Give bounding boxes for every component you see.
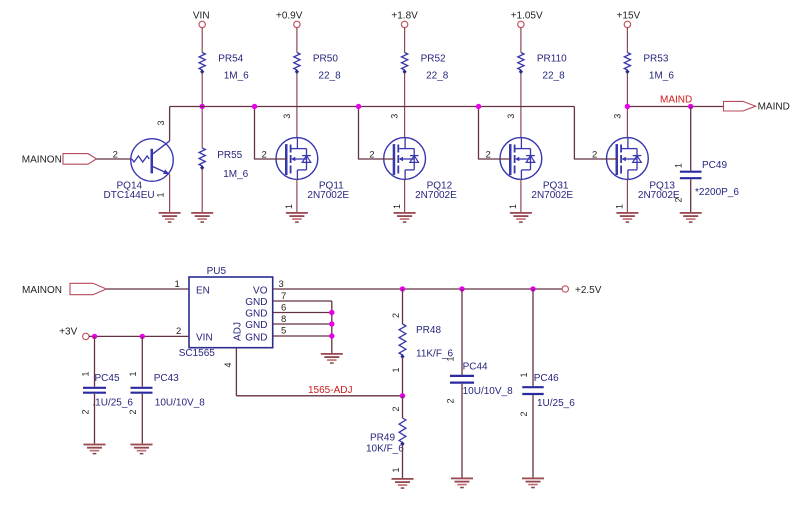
svg-text:PC43: PC43 (154, 373, 179, 384)
pin 1 label PU5 EN (175, 279, 180, 290)
port MAIND (724, 101, 790, 112)
wire gate tap to PQ13 (574, 107, 618, 160)
power terminal +2.5V (562, 285, 602, 296)
svg-text:2: 2 (176, 326, 181, 337)
ground (PC45) (84, 444, 106, 455)
svg-text:2: 2 (391, 406, 401, 411)
pin 4 label PU5 ADJ (223, 362, 233, 367)
svg-text:PC44: PC44 (463, 361, 488, 372)
svg-text:2: 2 (674, 197, 684, 202)
wire PQ14 emitter to ground (169, 174, 171, 212)
svg-text:1: 1 (392, 204, 402, 209)
svg-text:22_8: 22_8 (318, 71, 341, 82)
svg-text:1: 1 (175, 279, 180, 290)
wire ADJ node to PR49 (402, 396, 404, 418)
node PC46 tap (530, 286, 535, 291)
ground (PC49) (680, 212, 702, 223)
svg-text:PR52: PR52 (421, 53, 446, 64)
wire PU5 GND pin 6 (273, 312, 332, 314)
svg-text:PR55: PR55 (217, 150, 242, 161)
svg-text:VIN: VIN (193, 11, 210, 22)
svg-text:PR110: PR110 (537, 53, 567, 64)
svg-text:22_8: 22_8 (426, 71, 449, 82)
svg-text:2: 2 (128, 409, 138, 414)
op-amp/regulator U PU5 (SC1565) (179, 266, 273, 359)
pin 7 label PU5 (281, 291, 286, 302)
node gate tap PQ31 (476, 104, 481, 109)
svg-text:4: 4 (223, 362, 233, 367)
wire MAIND net (627, 106, 723, 108)
svg-text:PU5: PU5 (207, 266, 227, 277)
ground (PU5 GND) (321, 353, 343, 364)
svg-text:1: 1 (284, 204, 294, 209)
resistor PR54 (199, 53, 249, 82)
svg-text:.1U/25_6: .1U/25_6 (92, 398, 133, 409)
pin 2 label PR49 (391, 406, 401, 411)
wire PR52 to PQ12 drain (404, 74, 406, 138)
wire PQ14 collector to bus (169, 107, 171, 141)
svg-text:1: 1 (128, 371, 138, 376)
svg-text:10U/10V_8: 10U/10V_8 (155, 398, 205, 409)
svg-text:1: 1 (674, 163, 684, 168)
svg-text:1M_6: 1M_6 (223, 169, 248, 180)
svg-text:GND: GND (245, 309, 267, 320)
port MAINON (top) (22, 154, 97, 166)
power terminal VIN (193, 11, 210, 28)
svg-text:1: 1 (391, 467, 401, 472)
resistor PR53 (624, 53, 674, 82)
node gate tap PQ11 (252, 104, 257, 109)
svg-text:1M_6: 1M_6 (224, 71, 249, 82)
svg-text:3: 3 (156, 120, 166, 125)
svg-text:2: 2 (113, 149, 118, 160)
svg-text:1: 1 (80, 371, 90, 376)
pin 2 label PQ13 (592, 149, 597, 160)
power terminal +1.8V (391, 11, 418, 28)
svg-text:MAINON: MAINON (22, 285, 62, 296)
pin 2 label PR48 (391, 313, 401, 318)
svg-text:1565-ADJ: 1565-ADJ (308, 385, 352, 396)
svg-text:1M_6: 1M_6 (649, 71, 674, 82)
wire PQ11 source to ground (296, 179, 298, 212)
wire gate tap to PQ11 (255, 107, 288, 160)
capacitor PC46 (519, 289, 575, 478)
wire PQ31 source to ground (520, 179, 522, 212)
svg-text:10K/F_6: 10K/F_6 (366, 444, 404, 455)
resistor PR48 (399, 324, 453, 360)
wire VO to +2.5V (273, 288, 562, 290)
pin 1 label PR49 (391, 467, 401, 472)
svg-text:1U/25_6: 1U/25_6 (537, 398, 575, 409)
ground (PC44) (451, 478, 473, 489)
wire gate tap to PQ31 (479, 107, 512, 160)
wire bus to PR55 (201, 74, 203, 149)
port MAINON (bottom) (22, 283, 106, 296)
node PC43 tap (140, 334, 145, 339)
wire +0.9V to PR50 (296, 28, 298, 53)
svg-text:GND: GND (245, 297, 267, 308)
wire VIN to PR54 (201, 28, 203, 53)
transistor PQ13 (2N7002E) (607, 138, 649, 180)
svg-text:PR50: PR50 (313, 53, 338, 64)
pin 8 label PU5 (281, 314, 286, 325)
svg-text:22_8: 22_8 (542, 71, 565, 82)
svg-text:*2200P_6: *2200P_6 (695, 187, 739, 198)
transistor PQ11 (2N7002E) (276, 138, 318, 180)
svg-text:3: 3 (282, 114, 292, 119)
pin 5 label PU5 (281, 326, 286, 337)
svg-text:PC49: PC49 (702, 160, 727, 171)
power terminal +15V (617, 11, 641, 28)
wire +1.8V to PR52 (404, 28, 406, 53)
ground (PQ14) (159, 212, 181, 223)
capacitor PC44 (446, 289, 514, 478)
svg-text:MAIND: MAIND (660, 95, 692, 106)
resistor PR49 (366, 418, 406, 455)
svg-text:1: 1 (391, 367, 401, 372)
ground (PQ12) (394, 212, 416, 223)
pin 2 label PQ31 (486, 149, 491, 160)
svg-text:1: 1 (519, 372, 529, 377)
transistor PQ14 (DTC144EU) (131, 139, 174, 182)
transistor PQ12 (2N7002E) (384, 138, 426, 180)
svg-text:+1.05V: +1.05V (511, 11, 543, 22)
node VIN/bus junction (200, 104, 205, 109)
ground (PR49) (392, 478, 414, 489)
svg-text:10U/10V_8: 10U/10V_8 (463, 386, 513, 397)
label PQ13 (638, 180, 680, 201)
svg-text:VO: VO (253, 285, 268, 296)
label PQ12 (415, 180, 457, 201)
svg-text:1: 1 (615, 204, 625, 209)
pin 1 label PR48 (391, 367, 401, 372)
pin 1 label PQ31 (508, 204, 518, 209)
pin 1 label PQ14 (156, 192, 166, 197)
wire +3V to VIN pin (89, 335, 189, 337)
wire PU5 GND pin 7 (273, 300, 332, 302)
node PC45 tap (92, 334, 97, 339)
transistor PQ31 (2N7002E) (500, 138, 542, 180)
pin 2 label PQ11 (262, 149, 267, 160)
pin 3 label PQ13 (612, 114, 622, 119)
wire PU5 GND pin 8 (273, 323, 332, 325)
node gate tap PQ12 (356, 104, 361, 109)
svg-text:2N7002E: 2N7002E (307, 190, 349, 201)
svg-text:+2.5V: +2.5V (575, 285, 602, 296)
node PC44 tap (459, 286, 464, 291)
wire GND bus down (331, 301, 333, 353)
pin 1 label PQ11 (284, 204, 294, 209)
capacitor PC45 (80, 336, 133, 443)
svg-text:2: 2 (446, 398, 456, 403)
svg-text:2N7002E: 2N7002E (415, 190, 457, 201)
net label 1565-ADJ (308, 385, 352, 396)
wire MAINON to PQ14 base (97, 158, 132, 160)
svg-text:2: 2 (80, 409, 90, 414)
svg-text:SC1565: SC1565 (179, 348, 216, 359)
ground (PR55) (191, 212, 213, 223)
resistor PR52 (402, 53, 449, 82)
pin 1 label PQ13 (615, 204, 625, 209)
wire MAINON to EN pin (106, 288, 189, 290)
pin 3 label PQ31 (506, 114, 516, 119)
pin 3 label PQ14 (156, 120, 166, 125)
capacitor PC43 (128, 336, 205, 443)
power terminal +0.9V (276, 11, 303, 28)
wire PR49 to ground (402, 444, 404, 478)
wire PR110 to PQ31 drain (520, 74, 522, 138)
svg-text:1: 1 (156, 192, 166, 197)
svg-text:3: 3 (390, 114, 400, 119)
ground (PC46) (522, 478, 544, 489)
svg-text:3: 3 (506, 114, 516, 119)
svg-text:ADJ: ADJ (233, 322, 244, 341)
wire 1565-ADJ net (236, 395, 402, 397)
svg-text:MAIND: MAIND (758, 101, 790, 112)
node GND join 5 (329, 333, 334, 338)
ground (PQ13) (616, 212, 638, 223)
svg-text:2: 2 (391, 313, 401, 318)
pin 6 label PU5 (281, 303, 286, 314)
node PR48 tap (400, 286, 405, 291)
ground (PQ31) (510, 212, 532, 223)
power terminal +1.05V (511, 11, 543, 28)
svg-text:PC46: PC46 (534, 373, 559, 384)
pin 3 label PQ12 (390, 114, 400, 119)
pin 2 label PQ14 (113, 149, 118, 160)
svg-text:GND: GND (245, 332, 267, 343)
wire gate bus (170, 106, 575, 108)
pin 1 label PQ12 (392, 204, 402, 209)
wire +15V to PR53 (626, 28, 628, 53)
wire PR53 to PQ13 drain (626, 74, 628, 138)
svg-text:+1.8V: +1.8V (391, 11, 418, 22)
wire PU5 ADJ pin down (235, 348, 237, 396)
pin 3 label PU5 VO (279, 279, 284, 290)
wire +1.05V to PR110 (520, 28, 522, 53)
resistor PR110 (518, 53, 567, 82)
svg-text:PR54: PR54 (218, 53, 243, 64)
svg-text:MAINON: MAINON (22, 155, 62, 166)
svg-text:DTC144EU: DTC144EU (104, 190, 155, 201)
node MAIND / +15V rail junction (625, 104, 630, 109)
wire PU5 GND pin 5 (273, 335, 332, 337)
svg-text:PR48: PR48 (416, 325, 441, 336)
wire gate tap to PQ12 (359, 107, 396, 160)
wire VO to PR48 (402, 289, 404, 324)
label PQ31 (531, 180, 573, 201)
svg-text:2: 2 (519, 411, 529, 416)
svg-text:PR53: PR53 (643, 53, 668, 64)
svg-text:+15V: +15V (617, 11, 641, 22)
wire PQ12 source to ground (404, 179, 406, 212)
pin 2 label PQ12 (369, 149, 374, 160)
wire PR55 to ground (201, 170, 203, 213)
net label MAIND (660, 95, 692, 106)
svg-text:+3V: +3V (59, 326, 77, 337)
svg-text:3: 3 (612, 114, 622, 119)
node ADJ junction (400, 393, 405, 398)
wire PQ13 source to ground (626, 179, 628, 212)
pin 2 label PU5 VIN (176, 326, 181, 337)
power terminal +3V (59, 326, 89, 339)
resistor PR55 (199, 148, 249, 180)
label PQ11 (307, 180, 349, 201)
svg-text:PR49: PR49 (370, 432, 395, 443)
ground (PQ11) (286, 212, 308, 223)
capacitor PC49 (674, 107, 740, 213)
resistor PR50 (294, 53, 341, 82)
node GND join 8 (329, 321, 334, 326)
svg-text:2N7002E: 2N7002E (531, 190, 573, 201)
svg-text:VIN: VIN (196, 332, 213, 343)
wire PR50 to PQ11 drain (296, 74, 298, 138)
svg-text:1: 1 (508, 204, 518, 209)
node GND join 6 (329, 310, 334, 315)
svg-text:+0.9V: +0.9V (276, 11, 303, 22)
node PC49 tap (688, 104, 693, 109)
svg-text:1: 1 (446, 356, 456, 361)
svg-text:GND: GND (245, 320, 267, 331)
svg-text:5: 5 (281, 326, 286, 337)
label PQ14 (104, 180, 155, 201)
svg-text:PC45: PC45 (95, 373, 120, 384)
pin 3 label PQ11 (282, 114, 292, 119)
wire PR48 to ADJ node (402, 358, 404, 396)
ground (PC43) (131, 444, 153, 455)
svg-text:EN: EN (196, 285, 210, 296)
